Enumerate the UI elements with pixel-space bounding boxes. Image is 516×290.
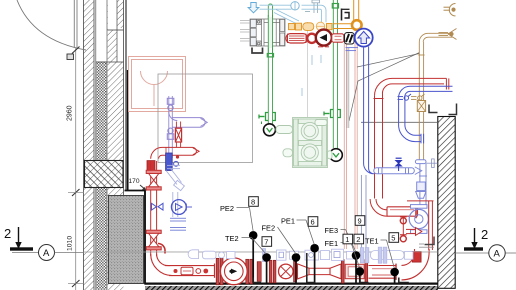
green valve V2	[324, 110, 340, 118]
svg-text:A: A	[43, 248, 50, 259]
blue stub left of pump	[346, 48, 359, 51]
stem PE1	[310, 244, 319, 283]
box 8	[249, 197, 259, 207]
label TE1	[365, 237, 394, 269]
red drop rect	[412, 252, 421, 263]
cyan supply arrow	[248, 3, 259, 13]
door leaf	[67, 0, 77, 60]
dimension line left	[68, 47, 84, 290]
green riser 2	[332, 0, 338, 148]
label TE2	[225, 234, 266, 254]
wall corner step (thick)	[125, 191, 146, 285]
blue valve on capsule	[396, 158, 402, 171]
flange pair	[269, 260, 276, 283]
gray equipment footprint rectangle	[158, 74, 253, 163]
boxes 1 2	[343, 234, 353, 244]
door swing arc	[17, 0, 86, 50]
U bracket under block	[252, 48, 263, 54]
stem FE1	[356, 267, 365, 282]
pump P1 flanges	[216, 258, 252, 285]
svg-text:TE1: TE1	[365, 237, 379, 246]
flow meter circle 1	[264, 124, 276, 136]
black bracket right	[342, 9, 350, 21]
left wall hatched band A	[84, 0, 95, 290]
left wall hatched band C	[96, 0, 124, 290]
blue valve symbol	[398, 94, 412, 100]
blue pump drop pipe (long)	[364, 47, 374, 174]
orange fittings	[289, 23, 333, 31]
gray pipe elbow top	[305, 0, 320, 13]
right wall top cap brackets	[429, 104, 457, 115]
right wall hatched	[438, 117, 455, 289]
red valve set 1	[146, 170, 161, 190]
stem PE2	[249, 231, 258, 283]
wall face line right	[361, 121, 438, 123]
red flange ring	[307, 34, 316, 43]
svg-text:2960: 2960	[67, 105, 74, 121]
green riser 1 over block	[268, 15, 272, 56]
twin pump unit (light green)	[276, 118, 332, 168]
lavender strainer assembly	[166, 165, 184, 217]
violet riser from room	[167, 96, 174, 158]
TAN SYMBOLS TOP RIGHT	[439, 4, 457, 40]
stem TE1	[390, 268, 399, 283]
label PE1	[281, 217, 314, 245]
LAVENDER BOTTOM RUN	[150, 247, 437, 263]
section line through plan	[84, 251, 438, 253]
tan horizontal top	[419, 33, 452, 42]
pump P4 (blue)	[355, 29, 373, 47]
box 5	[389, 233, 399, 243]
red bottom-right capsule	[387, 205, 418, 218]
blue horizontal capsule	[374, 159, 438, 175]
drain stack cap	[415, 160, 426, 164]
lavender small accents	[279, 252, 340, 258]
violet capsule with pointer	[169, 112, 208, 127]
label PE2	[220, 204, 253, 232]
label FE1	[325, 239, 360, 268]
reducer cone	[298, 264, 310, 279]
box 6	[308, 217, 318, 227]
svg-text:170: 170	[129, 178, 140, 185]
gray bracket bottom right	[419, 237, 434, 248]
striped isolation fitting	[345, 33, 355, 44]
blue small circle	[174, 161, 179, 166]
red elbow into wall run	[151, 147, 162, 158]
red return riser	[374, 78, 449, 198]
blue check valve pair	[152, 203, 164, 210]
red drain stems with rings	[400, 216, 407, 242]
label FE2	[262, 224, 297, 255]
periwinkle continuation pair down to lavender run	[361, 175, 366, 248]
svg-text:FE3: FE3	[325, 226, 339, 235]
red valve set 2	[146, 230, 161, 250]
red elbow wall run to bottom main	[151, 254, 173, 276]
corner concrete column	[109, 196, 144, 284]
box 9	[355, 216, 365, 226]
red tee line right	[407, 201, 434, 250]
svg-text:A: A	[494, 249, 501, 260]
pump P1 body	[220, 258, 247, 285]
floor feet brackets	[253, 253, 409, 283]
svg-text:8: 8	[251, 197, 255, 206]
svg-text:5: 5	[391, 233, 395, 242]
narrow pipe	[309, 268, 330, 274]
svg-text:2: 2	[481, 227, 488, 242]
red wall run vertical	[151, 161, 157, 256]
salmon room box	[129, 57, 186, 112]
svg-text:2: 2	[4, 226, 11, 241]
orange riser	[354, 0, 359, 21]
svg-text:9: 9	[358, 216, 362, 225]
salmon shaft lines right	[344, 43, 357, 249]
svg-text:TE2: TE2	[225, 234, 239, 243]
left section marker 2/A	[4, 226, 84, 261]
drain stack pipe	[419, 164, 427, 206]
orange gauge circle	[316, 22, 325, 30]
HEAT EXCHANGER BLOCK	[240, 19, 285, 46]
big red elbow bottom right	[402, 249, 430, 280]
stem FE2	[292, 253, 301, 282]
red bar fitting	[257, 262, 261, 282]
blue flange bars below pump	[170, 218, 186, 230]
red branch curl	[158, 244, 165, 254]
svg-text:6: 6	[311, 217, 315, 226]
left wall insulation band B	[96, 0, 107, 290]
stem TE2	[262, 253, 271, 282]
svg-text:PE2: PE2	[220, 204, 234, 213]
flow meter circle 2	[330, 149, 343, 162]
red arrow pipe	[406, 228, 422, 236]
red butterfly valve on drop	[175, 122, 181, 148]
green riser 1	[267, 4, 273, 124]
tan union coupling	[417, 101, 425, 112]
blue drop filled rect	[166, 153, 173, 171]
svg-text:1: 1	[345, 235, 349, 244]
flange	[294, 261, 297, 282]
cyan pipe top	[260, 5, 314, 24]
capsule section 2	[369, 264, 397, 280]
red flex connector	[286, 34, 308, 43]
orange elbow torus	[352, 20, 362, 30]
red pipe to valve	[332, 34, 344, 42]
tan riser	[418, 42, 424, 160]
red elbow to bottom-right capsule	[370, 199, 387, 216]
orange pipe horizontal	[333, 24, 352, 29]
tan valve symbol	[411, 94, 425, 100]
svg-text:FE1: FE1	[325, 239, 339, 248]
red horizontal capsule with arrow	[162, 147, 199, 158]
cyan sensor circle	[291, 1, 299, 10]
red drop filled rect	[147, 161, 155, 172]
cyan drop line	[347, 48, 349, 128]
faint guide line	[307, 22, 309, 135]
svg-text:PE1: PE1	[281, 217, 295, 226]
meter section	[341, 260, 367, 284]
drain stack fitting	[417, 182, 426, 191]
stem FE3	[352, 251, 361, 282]
main capsule section	[165, 264, 215, 278]
dimension 170	[129, 178, 147, 191]
expander cone	[330, 264, 341, 279]
valve V-X circle	[279, 264, 294, 279]
svg-text:FE2: FE2	[262, 224, 276, 233]
box 7	[262, 237, 272, 247]
periwinkle torus elbow	[409, 205, 428, 234]
cyan elbow down	[313, 5, 326, 22]
bottom wall line	[145, 283, 438, 285]
blue supply riser	[399, 86, 453, 143]
drain funnel	[416, 192, 426, 199]
right section marker 2/A	[455, 227, 516, 261]
blue inline pump	[171, 200, 192, 215]
pump P3 (red)	[316, 30, 332, 47]
green valve V1	[259, 113, 275, 125]
cross-hatched lintel block	[85, 161, 124, 188]
label FE3	[325, 226, 356, 252]
svg-text:1010: 1010	[67, 236, 74, 251]
bottom floor hatched bar	[145, 286, 438, 290]
cyan stub dashes	[302, 55, 321, 96]
svg-text:7: 7	[264, 237, 268, 246]
svg-text:2: 2	[356, 235, 360, 244]
left wall inner face lines	[126, 0, 128, 191]
gray leader lines to tan pipe	[349, 53, 420, 122]
